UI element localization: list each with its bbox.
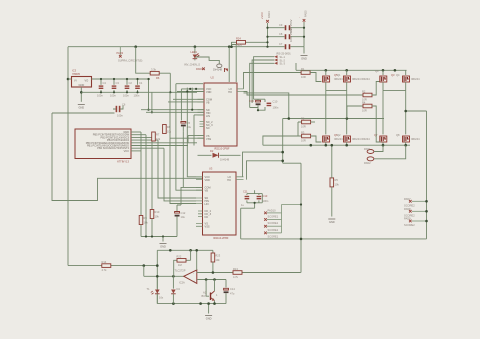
junction rail x395 — [394, 69, 397, 72]
wire phase D down2 — [405, 111, 407, 134]
svg-text:U3: U3 — [209, 167, 213, 171]
svg-text:IRF244: IRF244 — [334, 77, 343, 81]
svg-text:A2: A2 — [203, 291, 207, 295]
junction U2 vcc2 — [195, 88, 197, 90]
junction top bus at regulator input — [67, 78, 70, 81]
svg-text:1u: 1u — [241, 203, 244, 207]
wire ATtiny pin PB1 — [131, 145, 188, 147]
pad PAD3 — [117, 47, 143, 63]
svg-text:NC: NC — [206, 126, 210, 130]
resistor R5 pulldown — [330, 144, 339, 217]
svg-text:PAD9: PAD9 — [196, 67, 203, 71]
wire cap cluster box — [250, 99, 265, 110]
wire gnd stem opamp — [208, 304, 210, 314]
capacitor C16 electrolytic right of U2 — [249, 99, 261, 105]
junction R14 line x143 — [143, 264, 146, 267]
wire U2 pin stubs right — [237, 89, 244, 92]
svg-text:PAD4: PAD4 — [267, 11, 271, 18]
wire ATtiny pin GND — [131, 131, 141, 133]
wire cap rail left — [267, 23, 269, 47]
svg-text:SL-3: SL-3 — [280, 62, 286, 66]
resistor R9 vertical — [139, 216, 148, 237]
junction rail Q5 — [325, 69, 328, 72]
wire opamp plus up — [196, 250, 198, 270]
svg-text:Q1: Q1 — [337, 73, 341, 77]
svg-text:ATTINY13: ATTINY13 — [117, 160, 129, 164]
svg-text:VCC: VCC — [124, 149, 130, 153]
junction rail drop a2 — [147, 109, 149, 111]
svg-text:SCORE1: SCORE1 — [268, 228, 279, 232]
pad PAD9 with diode — [196, 67, 228, 72]
wire U2 VCC feed — [176, 84, 204, 89]
resistor R7 vertical — [152, 132, 161, 141]
resistor R14 — [102, 260, 111, 272]
capacitor C10 — [267, 100, 279, 110]
ground opamp — [205, 316, 212, 321]
svg-text:VDD: VDD — [206, 90, 212, 94]
svg-text:R7: R7 — [156, 133, 160, 137]
wire R2 to Q3 gate — [372, 82, 381, 96]
wire gnd bus under caps — [81, 91, 197, 93]
capacitor C9 row1 — [266, 19, 305, 33]
svg-text:4.7k: 4.7k — [233, 275, 239, 279]
resistor R3 gate — [263, 130, 322, 145]
svg-text:PAD5: PAD5 — [304, 10, 308, 17]
wire C6 branch — [52, 112, 115, 114]
junction rail drop a — [147, 78, 149, 80]
wire U3 COM feed — [177, 187, 183, 205]
junction row2 feed b — [346, 117, 349, 120]
wire U2 LO up to gates — [244, 73, 302, 89]
junction bottom b — [199, 302, 202, 305]
wire U2 VDD feed — [177, 91, 204, 93]
svg-text:PAD9: PAD9 — [404, 217, 411, 221]
wire middle vertical d — [191, 88, 193, 110]
svg-text:R4: R4 — [362, 100, 366, 104]
svg-text:Q3: Q3 — [391, 73, 395, 77]
svg-text:IRS-25-0801: IRS-25-0801 — [276, 52, 291, 56]
junction bus1 — [145, 235, 147, 237]
junction top bus x229 — [228, 45, 231, 48]
svg-text:NC: NC — [205, 215, 209, 219]
svg-text:100n: 100n — [117, 114, 123, 118]
connector SL1 pins — [274, 55, 285, 66]
wire phase left vertical — [282, 119, 284, 164]
svg-text:1N4148: 1N4148 — [213, 68, 223, 72]
svg-text:100n: 100n — [263, 199, 269, 203]
wire U3 pin stubs left — [196, 177, 203, 227]
svg-text:BC?: BC? — [202, 294, 208, 298]
capacitor C11 — [241, 190, 262, 208]
resistor R0 gate upper — [298, 116, 315, 136]
svg-text:SCORE1: SCORE1 — [268, 235, 279, 239]
junction opamp top a — [169, 249, 172, 252]
transistor Q6 IRF244 — [323, 133, 343, 145]
svg-text:10k: 10k — [167, 130, 172, 134]
svg-text:VO: VO — [85, 79, 89, 83]
wire U3 HO route — [247, 161, 283, 180]
wire bridge top rail — [296, 63, 407, 70]
wire U3 bottom bus — [141, 236, 177, 238]
junction score link — [300, 203, 302, 205]
pad PAD9b score2 — [404, 217, 428, 227]
junction bus3 — [162, 235, 164, 237]
svg-text:T1: T1 — [147, 287, 151, 291]
wire middle vertical b — [180, 89, 182, 121]
LED D3 — [147, 275, 164, 304]
svg-text:R23: R23 — [215, 254, 220, 258]
junction U2 vcc — [189, 88, 191, 90]
svg-text:C4: C4 — [103, 81, 107, 85]
wire U2 SD long feed — [141, 109, 204, 111]
svg-text:VI: VI — [74, 79, 77, 83]
junction bus2 — [151, 235, 153, 237]
wire plus input line — [197, 272, 229, 274]
transistor Q8 IRF244 — [396, 133, 420, 145]
svg-text:10k: 10k — [335, 183, 340, 187]
wire PB2 net down — [164, 148, 196, 201]
svg-text:R14: R14 — [102, 260, 107, 264]
wire Q9 collector — [214, 280, 216, 292]
ground below R5 — [328, 219, 335, 224]
svg-text:IR2110-2PBF: IR2110-2PBF — [213, 236, 229, 240]
wire Q9 emitter — [214, 301, 216, 304]
svg-text:LED1: LED1 — [191, 50, 198, 54]
svg-text:C10: C10 — [273, 100, 278, 104]
wire base branch — [206, 280, 209, 297]
transistor Q5 IRF244 — [323, 70, 343, 90]
pad PAD7 score2 — [404, 197, 428, 207]
svg-text:1N4148: 1N4148 — [220, 157, 230, 161]
wire phase to mid vertical — [283, 163, 301, 239]
junction bus mid — [310, 144, 313, 147]
wire opamp left vertical — [156, 250, 158, 303]
svg-text:100n: 100n — [134, 94, 140, 98]
resistor R13 — [229, 267, 301, 279]
svg-text:SCORE2: SCORE2 — [404, 223, 415, 227]
capacitor C12 electrolytic — [175, 205, 186, 237]
wire stub above U2 a — [228, 47, 230, 82]
svg-text:100n: 100n — [97, 94, 103, 98]
wire R24 branch — [232, 42, 268, 46]
svg-text:PAD2: PAD2 — [364, 161, 371, 165]
wire PB4 net down — [158, 140, 196, 198]
svg-text:IRF244: IRF244 — [411, 137, 420, 141]
resistor R1 gate — [301, 67, 310, 79]
svg-text:C11: C11 — [243, 190, 248, 194]
junction phase left — [281, 151, 284, 154]
wire left loop down — [52, 113, 202, 201]
svg-text:R6: R6 — [156, 76, 160, 80]
wire SL1 pin2 — [252, 60, 274, 103]
svg-text:C12: C12 — [181, 211, 186, 215]
svg-text:R22: R22 — [177, 255, 182, 259]
svg-text:10k: 10k — [156, 137, 161, 141]
svg-text:PAD1: PAD1 — [364, 147, 371, 151]
junction opamp top b — [189, 249, 192, 252]
svg-text:SCORE1: SCORE1 — [268, 215, 279, 219]
wire rail drop b — [151, 92, 153, 112]
wire C11 cluster to U3 VB — [241, 190, 255, 239]
svg-text:INV_CH0N_S: INV_CH0N_S — [184, 63, 200, 67]
svg-text:78M05: 78M05 — [72, 72, 80, 76]
wire right loop to R13 — [300, 239, 302, 273]
svg-text:100n 250V: 100n 250V — [289, 28, 293, 42]
junction phase left2 — [281, 160, 284, 163]
svg-text:R8: R8 — [167, 125, 171, 129]
wire output branch — [144, 266, 184, 277]
svg-text:4.7k: 4.7k — [102, 268, 108, 272]
wire SL1 pin3 — [250, 63, 275, 107]
wire U2 VSS feed — [170, 137, 204, 139]
resistor R24 — [236, 37, 246, 48]
resistor R4 gate — [347, 100, 381, 142]
wire ATtiny GND net down — [140, 132, 142, 215]
wire rail drop a — [148, 79, 150, 110]
junction row2 feed — [288, 117, 291, 120]
wire U2 HO to R2 — [244, 92, 363, 96]
svg-text:-: - — [298, 17, 301, 18]
microcontroller IC1 ATTINY13 — [75, 129, 131, 164]
junction phase D — [404, 110, 407, 113]
wire phase D down — [406, 91, 427, 111]
wire regulator input — [68, 78, 72, 80]
svg-text:U2: U2 — [211, 76, 215, 80]
svg-text:VB: VB — [205, 189, 209, 193]
resistor R2 gate — [362, 89, 372, 101]
resistor R22 feedback — [174, 250, 191, 276]
capacitor C7 row3 — [266, 41, 304, 49]
wire gnd stem U3 — [162, 237, 164, 242]
svg-text:R5: R5 — [335, 178, 339, 182]
svg-text:Q4: Q4 — [375, 69, 379, 73]
svg-text:10R: 10R — [301, 75, 306, 79]
wire U2 LIN feed — [194, 115, 204, 146]
wire ATtiny pin PB2 — [131, 147, 164, 149]
svg-text:D2: D2 — [210, 149, 214, 153]
wire cap rail right — [303, 22, 305, 47]
wire right loop bottom — [241, 238, 427, 240]
wire U2 VB feed — [168, 101, 204, 103]
resistor R23 vertical — [211, 250, 221, 272]
svg-text:R3: R3 — [301, 130, 305, 134]
svg-text:SCORE2: SCORE2 — [404, 213, 415, 217]
wire U2 COM feed — [173, 98, 204, 100]
svg-text:C6: C6 — [122, 103, 126, 107]
transistor Q1 IRF244 — [337, 70, 370, 90]
svg-text:PAD7: PAD7 — [404, 197, 411, 201]
wire LIN3 net — [170, 92, 196, 203]
svg-text:Q8: Q8 — [396, 133, 400, 137]
wire U2 VS feed — [188, 136, 204, 143]
svg-text:PAD3: PAD3 — [117, 51, 124, 55]
svg-text:GND: GND — [79, 83, 85, 87]
svg-text:10R: 10R — [301, 138, 306, 142]
svg-text:LIN: LIN — [205, 202, 209, 206]
svg-text:IRF244 IRF244: IRF244 IRF244 — [352, 77, 370, 81]
diode D2 — [198, 149, 241, 162]
svg-text:SUPRA_CIRCUIT(S): SUPRA_CIRCUIT(S) — [118, 59, 142, 63]
svg-text:100n: 100n — [273, 106, 279, 110]
wire phase C down — [382, 91, 384, 135]
svg-text:1: 1 — [216, 293, 218, 297]
junction bottom c — [213, 302, 216, 305]
LED LED1 — [191, 47, 200, 59]
svg-text:10R: 10R — [301, 124, 306, 128]
wire minus input line — [197, 279, 226, 281]
ground cap rail — [301, 47, 308, 61]
svg-text:IRF244 IRF244: IRF244 IRF244 — [352, 137, 370, 141]
junction rail Q3 — [382, 69, 385, 72]
junction mid c — [186, 90, 188, 92]
wire middle vertical a — [176, 84, 203, 191]
wire U2 HIN long feed — [146, 111, 204, 113]
wire U2 right feed — [244, 93, 289, 119]
svg-text:16x: 16x — [159, 296, 164, 300]
svg-text:PAD10: PAD10 — [268, 209, 277, 213]
pad PAD10 score1 — [264, 209, 281, 219]
ground below U3 — [160, 244, 167, 249]
resistor R8 vertical — [163, 125, 172, 134]
svg-text:3.3k: 3.3k — [151, 68, 157, 72]
junction bus q6 — [325, 144, 328, 147]
transistor Q4 IRF244 — [396, 70, 420, 90]
capacitor C13 — [247, 194, 269, 203]
pad PAD4 +VCC — [260, 11, 271, 23]
wire U2 pin stubs left — [198, 89, 205, 138]
svg-text:5R6: 5R6 — [237, 43, 242, 47]
capacitor C1 — [134, 78, 143, 98]
svg-text:C16: C16 — [249, 99, 254, 103]
junction rail drop b2 — [151, 111, 153, 113]
svg-text:IC2A: IC2A — [179, 281, 185, 285]
wire PB3 net down — [151, 137, 153, 209]
svg-text:10k: 10k — [215, 258, 220, 262]
wire opamp bottom bus — [157, 303, 226, 305]
capacitor C14 — [224, 280, 236, 304]
svg-text:VSS: VSS — [206, 137, 211, 141]
pad motor PAD1 — [364, 145, 383, 153]
wire opamp top rail — [157, 249, 213, 251]
svg-text:R13: R13 — [233, 267, 238, 271]
resistor R6 3.3k — [136, 47, 171, 80]
pad motor PAD2 — [364, 145, 406, 165]
wire phase node CD — [383, 90, 406, 92]
wire U3 pin stubs right — [236, 177, 244, 180]
svg-text:IC3: IC3 — [72, 69, 77, 73]
junction plus top — [195, 249, 198, 252]
svg-text:R0: R0 — [301, 116, 305, 120]
wire PB5 net down — [145, 135, 147, 237]
transistor Q9 BC547 — [202, 291, 219, 301]
svg-text:1M: 1M — [178, 263, 182, 267]
junction c cluster — [254, 202, 256, 204]
junction cap cluster — [257, 109, 259, 111]
wire regulator output rail — [92, 78, 151, 80]
svg-text:47u: 47u — [230, 292, 235, 296]
wire score1 vertical — [281, 205, 283, 233]
diode D4 — [171, 276, 180, 303]
svg-text:D4: D4 — [177, 287, 181, 291]
wire ATtiny pin PB5 — [131, 134, 146, 136]
gate driver IC U3 IR2110 bottom — [203, 167, 237, 240]
svg-text:C1: C1 — [139, 81, 143, 85]
supply oval VD1 — [213, 64, 223, 72]
svg-text:Q2: Q2 — [337, 133, 341, 137]
svg-text:C2: C2 — [129, 81, 133, 85]
gate driver IC U2 IR2110 top — [204, 76, 237, 151]
svg-text:R10: R10 — [155, 210, 160, 214]
transistor Q3 IRF244 — [375, 69, 395, 91]
junction minus b — [213, 278, 216, 281]
svg-text:R24: R24 — [236, 37, 241, 41]
transistor Q2 IRF244 — [337, 133, 370, 145]
wire from R6 down — [169, 73, 171, 92]
junction gnd stem — [207, 302, 210, 305]
ground below regulator — [78, 105, 85, 110]
wire ATtiny pin PB0 — [131, 142, 197, 144]
svg-text:IRF244: IRF244 — [411, 77, 420, 81]
capacitor C5 electrolytic — [181, 121, 192, 132]
junction top bus x231 — [230, 45, 233, 48]
wire middle vertical b2 — [183, 132, 202, 188]
junction R6 gnd — [169, 91, 171, 93]
junction bus q8 — [404, 144, 407, 147]
wire bottom bridge bus — [263, 144, 410, 146]
svg-text:100n: 100n — [110, 94, 116, 98]
wire ATtiny pin PB3 — [131, 136, 152, 138]
svg-text:SCORE2: SCORE2 — [404, 203, 415, 207]
wire ATtiny pin VCC — [131, 150, 141, 152]
svg-text:SCORE1: SCORE1 — [268, 221, 279, 225]
wire R1 to Q5 gate — [310, 73, 321, 82]
op-amp IC2A TLC272P — [175, 269, 197, 285]
svg-text:Q4: Q4 — [396, 73, 400, 77]
wire main top bus — [68, 46, 268, 48]
svg-text:VSS: VSS — [205, 225, 210, 229]
svg-text:R9: R9 — [144, 216, 148, 220]
capacitor C8 row2 — [266, 28, 305, 42]
svg-text:C13: C13 — [263, 194, 268, 198]
wire regulator gnd stem — [80, 87, 82, 102]
wire row2 feed — [283, 118, 384, 120]
svg-text:VB: VB — [206, 101, 210, 105]
svg-text:IR2110-2PBF: IR2110-2PBF — [214, 147, 230, 151]
svg-text:C9: C9 — [279, 23, 283, 27]
svg-text:10k: 10k — [155, 215, 160, 219]
svg-text:LIN: LIN — [206, 114, 210, 118]
junction minus a — [205, 278, 208, 281]
capacitor C2 — [123, 78, 132, 98]
junction top bus x194 LED — [194, 45, 197, 48]
capacitor C3 — [110, 78, 119, 98]
svg-text:HO: HO — [228, 90, 232, 94]
svg-text:VDD: VDD — [205, 178, 211, 182]
wire middle vertical c — [187, 88, 196, 177]
wire phase A down — [325, 91, 327, 135]
junction R14 line x157 — [156, 264, 159, 267]
svg-text:+VCC: +VCC — [260, 12, 264, 19]
capacitor C4 — [97, 78, 106, 98]
pad PAD8 score2 — [404, 207, 428, 217]
resistor R10 vertical — [150, 210, 160, 237]
wire score1 top link — [282, 204, 302, 206]
svg-text:TLC272P: TLC272P — [175, 269, 186, 273]
svg-text:C7: C7 — [279, 42, 283, 46]
junction bus q2 — [345, 144, 348, 147]
wire phase node AB — [326, 90, 347, 92]
svg-text:PAD8: PAD8 — [404, 207, 411, 211]
